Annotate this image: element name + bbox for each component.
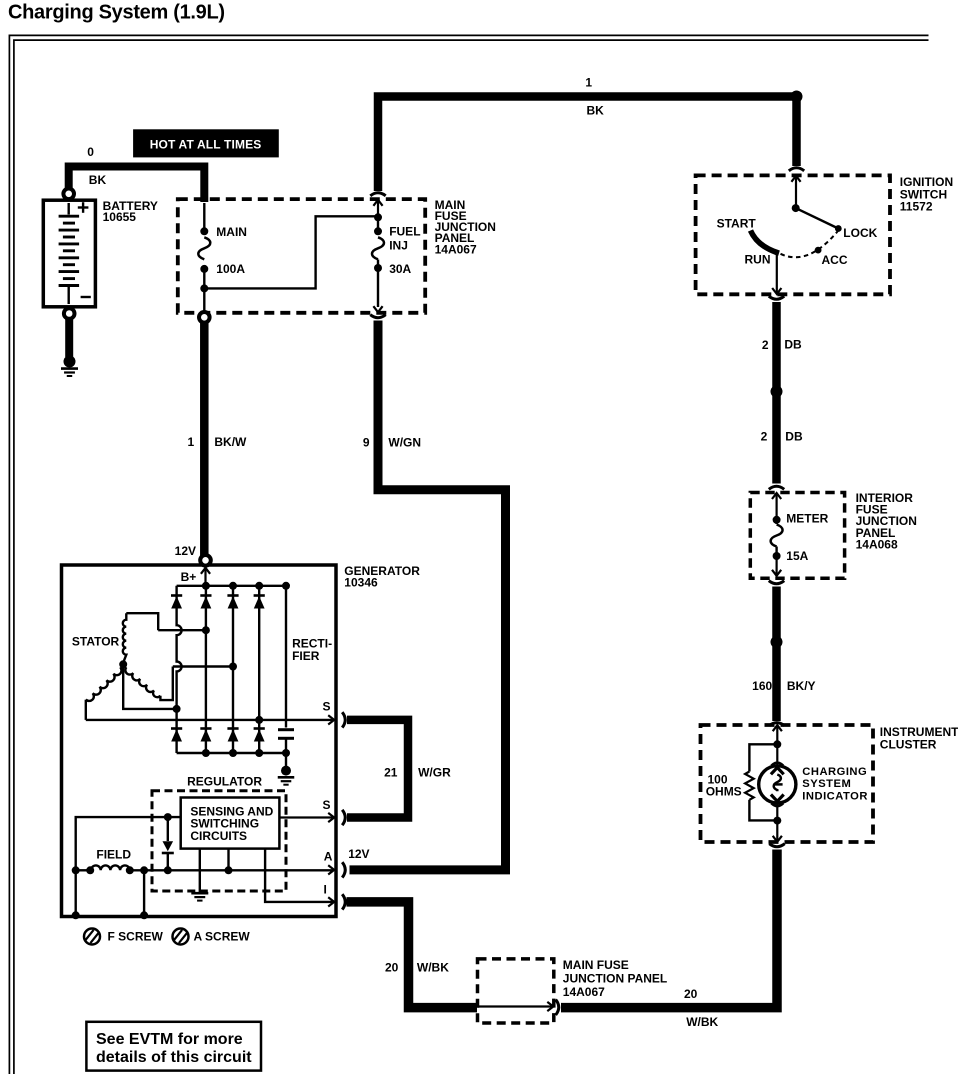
svg-text:BK: BK <box>587 104 605 118</box>
svg-text:MAIN: MAIN <box>216 225 247 239</box>
connector chevron (A terminal) <box>342 862 345 877</box>
node: sensing input to diode branch <box>164 813 172 821</box>
see EVTM note box <box>86 1022 261 1071</box>
ignition switch START-RUN wiper (thick arc) <box>751 231 780 254</box>
wire circuit 20 W/BK: instrument cluster to main fuse panel <box>769 844 784 847</box>
svg-text:11572: 11572 <box>900 200 933 214</box>
wire circuit 20 W/BK: generator I terminal to main fuse panel <box>347 902 478 1008</box>
ground (battery) <box>64 356 76 368</box>
svg-text:DB: DB <box>785 430 803 444</box>
rectifier leg 2 <box>205 586 207 753</box>
stator neutral junction <box>119 660 127 668</box>
ground (regulator) <box>191 892 208 895</box>
svg-text:1: 1 <box>188 435 195 449</box>
splice dot on 160 BK/Y wire <box>771 636 783 648</box>
wire battery negative to ground <box>65 319 73 357</box>
svg-text:FIELD: FIELD <box>96 848 131 862</box>
svg-text:DB: DB <box>784 338 802 352</box>
instrument cluster output line <box>776 821 778 842</box>
svg-text:CIRCUITS: CIRCUITS <box>190 829 247 843</box>
svg-text:FIER: FIER <box>292 649 320 663</box>
junction dot on 1 BK wire <box>791 91 803 103</box>
sensing and switching circuits box <box>181 798 280 849</box>
rectifier bus (top) <box>177 585 286 587</box>
sensing circuits I output <box>265 849 333 902</box>
fuse MAIN 100A <box>203 203 205 228</box>
svg-text:FUEL: FUEL <box>389 224 420 238</box>
instrument cluster input line <box>773 725 782 731</box>
svg-text:ACC: ACC <box>822 253 848 267</box>
connector chevron (ignition switch feed) <box>789 168 804 171</box>
svg-text:CHARGING: CHARGING <box>802 766 867 778</box>
svg-text:10655: 10655 <box>103 210 137 224</box>
svg-text:B+: B+ <box>181 570 197 584</box>
battery positive terminal <box>63 189 74 200</box>
node: phase A junction <box>202 626 210 634</box>
svg-text:14A067: 14A067 <box>435 242 477 256</box>
svg-text:RUN: RUN <box>745 253 771 267</box>
rectifier diodes (bottom row) <box>171 727 182 730</box>
generator S output line <box>86 719 334 721</box>
svg-text:INDICATOR: INDICATOR <box>802 790 868 802</box>
resistor 100 OHMS (shunt) <box>749 744 777 771</box>
svg-text:A: A <box>324 849 333 863</box>
svg-text:HOT AT ALL TIMES: HOT AT ALL TIMES <box>150 138 262 152</box>
svg-text:30A: 30A <box>389 262 411 276</box>
svg-text:0: 0 <box>87 145 94 159</box>
rectifier bus (bottom) <box>177 752 286 754</box>
svg-text:160: 160 <box>752 679 772 693</box>
svg-text:W/BK: W/BK <box>686 1015 718 1029</box>
svg-text:INJ: INJ <box>389 238 408 252</box>
fuse METER 15A <box>772 493 781 499</box>
main fuse junction panel 14A067 (bottom) box <box>478 959 554 1023</box>
charging system indicator lamp <box>759 766 796 803</box>
f screw <box>84 929 100 945</box>
stator coil to phase B (down-right) <box>125 667 160 697</box>
svg-text:20: 20 <box>385 961 399 975</box>
battery minus sign <box>81 296 91 298</box>
svg-text:BK: BK <box>89 173 107 187</box>
wire circuit 1 BK/W: main fuse panel to generator B+ <box>200 323 209 557</box>
interior fuse junction panel 14A068 box <box>750 493 844 579</box>
jumper: MAIN fuse output to FUEL INJ fuse input <box>204 216 378 288</box>
wire: field line to case ground <box>143 870 145 915</box>
rectifier leg 3 <box>232 586 234 753</box>
svg-text:I: I <box>324 882 327 896</box>
svg-text:BK/W: BK/W <box>214 435 247 449</box>
svg-text:OHMS: OHMS <box>706 785 742 799</box>
rectifier diodes (top row) <box>171 594 182 597</box>
ignition switch arm to LOCK <box>796 208 839 228</box>
stator coil to S (down-left) <box>86 667 122 701</box>
svg-text:SYSTEM: SYSTEM <box>802 778 851 790</box>
terminal at panel bottom (main fuse output) <box>199 312 210 323</box>
wire circuit 21 W/GR: generator S to regulator S <box>342 712 345 727</box>
svg-text:2: 2 <box>762 338 769 352</box>
ignition switch input line <box>791 176 800 182</box>
wire circuit 0 BK: battery to main fuse panel <box>69 167 205 203</box>
svg-text:21: 21 <box>384 766 398 780</box>
svg-text:F SCREW: F SCREW <box>108 930 164 944</box>
wire circuit 9 W/GN: fuse panel to generator A terminal <box>370 315 385 318</box>
svg-text:15A: 15A <box>786 549 808 563</box>
connector chevron (I terminal) <box>342 894 345 909</box>
svg-text:MAIN FUSE: MAIN FUSE <box>563 958 629 972</box>
regulator box <box>152 791 286 891</box>
ground (rectifier capacitor) <box>281 766 291 776</box>
diode (regulator field) <box>167 817 169 841</box>
regulator S output line <box>279 816 333 818</box>
capacitor (rectifier suppression) <box>285 586 287 728</box>
ignition switch LOCK contact <box>835 225 842 232</box>
fuse FUEL INJ 30A <box>373 200 382 206</box>
svg-text:START: START <box>717 217 757 231</box>
ignition switch 11572 box <box>696 175 890 294</box>
main fuse panel bottom pass-through line <box>478 1005 553 1007</box>
svg-text:CLUSTER: CLUSTER <box>880 737 937 751</box>
connector chevron (fuel inj feed) <box>370 193 385 196</box>
hot at all times banner <box>134 130 279 157</box>
sensing circuits ground leg <box>199 849 201 892</box>
svg-text:A SCREW: A SCREW <box>194 930 251 944</box>
svg-text:S: S <box>323 798 331 812</box>
svg-text:See EVTM for more: See EVTM for more <box>96 1031 243 1048</box>
svg-text:BK/Y: BK/Y <box>787 679 816 693</box>
svg-text:METER: METER <box>786 512 828 526</box>
stator windings <box>126 613 158 630</box>
stator neutral to rectifier leg 1 <box>123 664 176 709</box>
ignition switch ACC contact <box>815 247 822 254</box>
svg-text:LOCK: LOCK <box>843 226 877 240</box>
splice dot on 2 DB wire <box>771 386 783 398</box>
ignition switch detent arc (dashed) <box>781 231 839 258</box>
node: phase B junction <box>229 663 237 671</box>
node: case connection (F) <box>72 911 80 919</box>
generator 10346 box <box>62 565 337 917</box>
svg-text:1: 1 <box>585 76 592 90</box>
battery 10655 <box>43 200 95 307</box>
svg-text:W/GR: W/GR <box>418 766 451 780</box>
battery plus sign <box>78 206 89 208</box>
rectifier leg 1 (with hops) <box>177 586 182 753</box>
main fuse junction panel 14A067 box <box>178 199 425 313</box>
generator B+ terminal <box>200 555 211 566</box>
node: case connection (A) <box>140 911 148 919</box>
wire circuit 160 BK/Y: interior fuse panel to instrument cluster <box>769 581 784 584</box>
node: S line to rectifier leg 4 <box>255 716 263 724</box>
svg-text:20: 20 <box>684 987 698 1001</box>
ignition switch common node <box>792 204 800 212</box>
svg-text:STATOR: STATOR <box>72 635 120 649</box>
node: indicator top junction <box>773 740 781 748</box>
svg-text:Charging System (1.9L): Charging System (1.9L) <box>8 2 225 24</box>
ignition switch RUN output line <box>776 255 778 294</box>
svg-text:12V: 12V <box>348 847 369 861</box>
svg-text:S: S <box>323 699 331 713</box>
svg-text:2: 2 <box>761 430 768 444</box>
instrument cluster box <box>701 725 874 842</box>
node: stator neutral to leg 1 <box>173 705 181 713</box>
svg-text:REGULATOR: REGULATOR <box>187 774 262 788</box>
svg-text:10346: 10346 <box>344 576 378 590</box>
svg-text:JUNCTION PANEL: JUNCTION PANEL <box>563 972 667 986</box>
a screw <box>173 929 189 945</box>
svg-text:100A: 100A <box>216 262 245 276</box>
svg-text:14A068: 14A068 <box>856 538 898 552</box>
rectifier leg 4 <box>258 586 260 753</box>
node dots on field/A line <box>72 866 80 874</box>
svg-text:W/GN: W/GN <box>388 435 421 449</box>
svg-text:W/BK: W/BK <box>417 961 449 975</box>
wire circuit 1 BK: fuse panel to ignition switch <box>378 97 797 192</box>
battery negative terminal <box>64 308 75 319</box>
svg-text:details of this circuit: details of this circuit <box>96 1049 252 1066</box>
generator A line (12V) <box>130 869 334 871</box>
connector chevron (main fuse panel bottom, right side) <box>556 1000 559 1015</box>
wire: case to sensing circuits input <box>76 817 181 915</box>
svg-text:12V: 12V <box>175 544 196 558</box>
wire circuit 2 DB: ignition switch to interior fuse panel <box>769 296 784 299</box>
field coil <box>76 869 91 871</box>
svg-text:14A067: 14A067 <box>563 985 605 999</box>
node: indicator bottom junction <box>773 817 781 825</box>
svg-text:9: 9 <box>363 435 370 449</box>
connector chevron (regulator S) <box>342 810 345 825</box>
sensing circuits leg to A line <box>227 849 229 871</box>
